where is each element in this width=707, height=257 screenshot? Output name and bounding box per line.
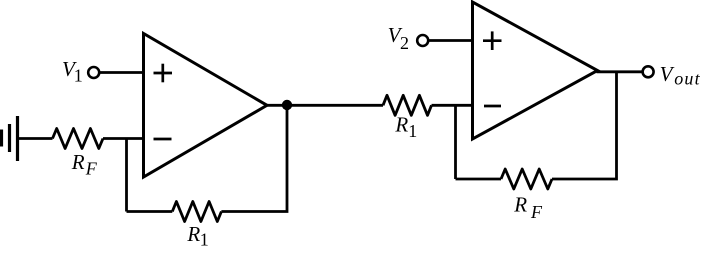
svg-text:2: 2 bbox=[400, 33, 409, 53]
svg-text:R: R bbox=[186, 222, 200, 246]
svg-text:1: 1 bbox=[74, 66, 83, 86]
svg-text:F: F bbox=[530, 202, 543, 222]
svg-text:R: R bbox=[71, 150, 85, 174]
svg-text:F: F bbox=[85, 158, 98, 178]
svg-text:V: V bbox=[660, 62, 675, 86]
svg-text:R: R bbox=[513, 193, 527, 217]
svg-text:out: out bbox=[674, 69, 701, 89]
svg-text:1: 1 bbox=[200, 230, 209, 250]
svg-text:R: R bbox=[394, 113, 408, 137]
svg-text:1: 1 bbox=[408, 121, 417, 141]
